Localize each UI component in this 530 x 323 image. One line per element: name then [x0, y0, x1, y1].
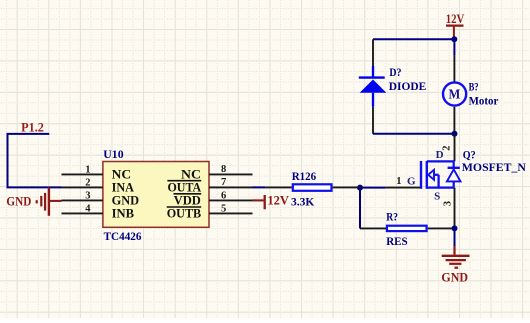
svg-text:NC: NC [112, 168, 131, 182]
svg-text:4: 4 [85, 204, 91, 215]
transistor Q? MOSFET_N [385, 134, 460, 229]
svg-text:8: 8 [221, 164, 226, 175]
svg-text:1: 1 [396, 176, 401, 187]
wire bottom horizontal of motor loop [373, 133, 455, 135]
svg-text:TC4426: TC4426 [104, 229, 142, 243]
svg-text:2: 2 [441, 146, 452, 151]
resistor R? [360, 226, 455, 231]
svg-text:GND: GND [441, 270, 468, 285]
svg-text:2: 2 [85, 178, 90, 189]
svg-text:12V: 12V [267, 194, 289, 208]
wire P1.2 to pin INA [8, 134, 62, 188]
svg-text:OUTA: OUTA [168, 181, 202, 195]
motor B? [443, 55, 466, 134]
resistor R126 [265, 184, 360, 191]
svg-text:INA: INA [112, 181, 134, 195]
junction source node [452, 225, 458, 231]
wire gate [360, 187, 385, 189]
svg-text:M: M [449, 87, 461, 102]
ground GND (left, power ground) [6, 187, 61, 216]
svg-text:3: 3 [443, 201, 454, 206]
svg-text:INB: INB [112, 207, 134, 221]
diode D? [359, 39, 387, 134]
svg-text:5: 5 [221, 203, 226, 214]
junction gate node [357, 185, 363, 191]
wire top horizontal [373, 38, 454, 40]
svg-text:RES: RES [386, 234, 408, 248]
svg-text:Motor: Motor [469, 94, 499, 108]
wire junction to motor [453, 39, 455, 55]
svg-text:GND: GND [6, 195, 31, 209]
svg-text:S: S [434, 191, 440, 203]
svg-text:DIODE: DIODE [389, 79, 427, 93]
svg-text:12V: 12V [446, 12, 465, 26]
svg-text:U10: U10 [103, 147, 123, 161]
wire to ground [454, 228, 456, 246]
svg-text:G: G [407, 175, 416, 187]
svg-text:P1.2: P1.2 [21, 120, 44, 134]
svg-text:OUTB: OUTB [167, 207, 202, 221]
IC U10 TC4426 [62, 162, 253, 228]
junction at drain rail [452, 131, 458, 137]
junction at 12V rail [451, 36, 457, 42]
svg-text:6: 6 [221, 190, 226, 201]
svg-text:3: 3 [85, 191, 90, 202]
svg-text:VDD: VDD [174, 194, 201, 208]
svg-text:GND: GND [112, 194, 140, 208]
ground GND (bottom) [441, 246, 469, 285]
svg-text:3.3K: 3.3K [291, 195, 315, 209]
wire gate node down [359, 188, 361, 229]
svg-text:B?: B? [469, 80, 479, 94]
svg-text:R126: R126 [292, 169, 317, 183]
power port 12V (at pin 6) [253, 194, 290, 210]
svg-text:R?: R? [386, 210, 398, 224]
svg-text:D?: D? [389, 65, 401, 79]
power port 12V (top) [446, 12, 465, 38]
svg-text:MOSFET_N: MOSFET_N [462, 160, 526, 174]
wire pin7 to R126 [253, 186, 266, 188]
svg-text:1: 1 [85, 165, 90, 176]
svg-text:NC: NC [181, 168, 201, 182]
svg-text:7: 7 [221, 177, 226, 188]
